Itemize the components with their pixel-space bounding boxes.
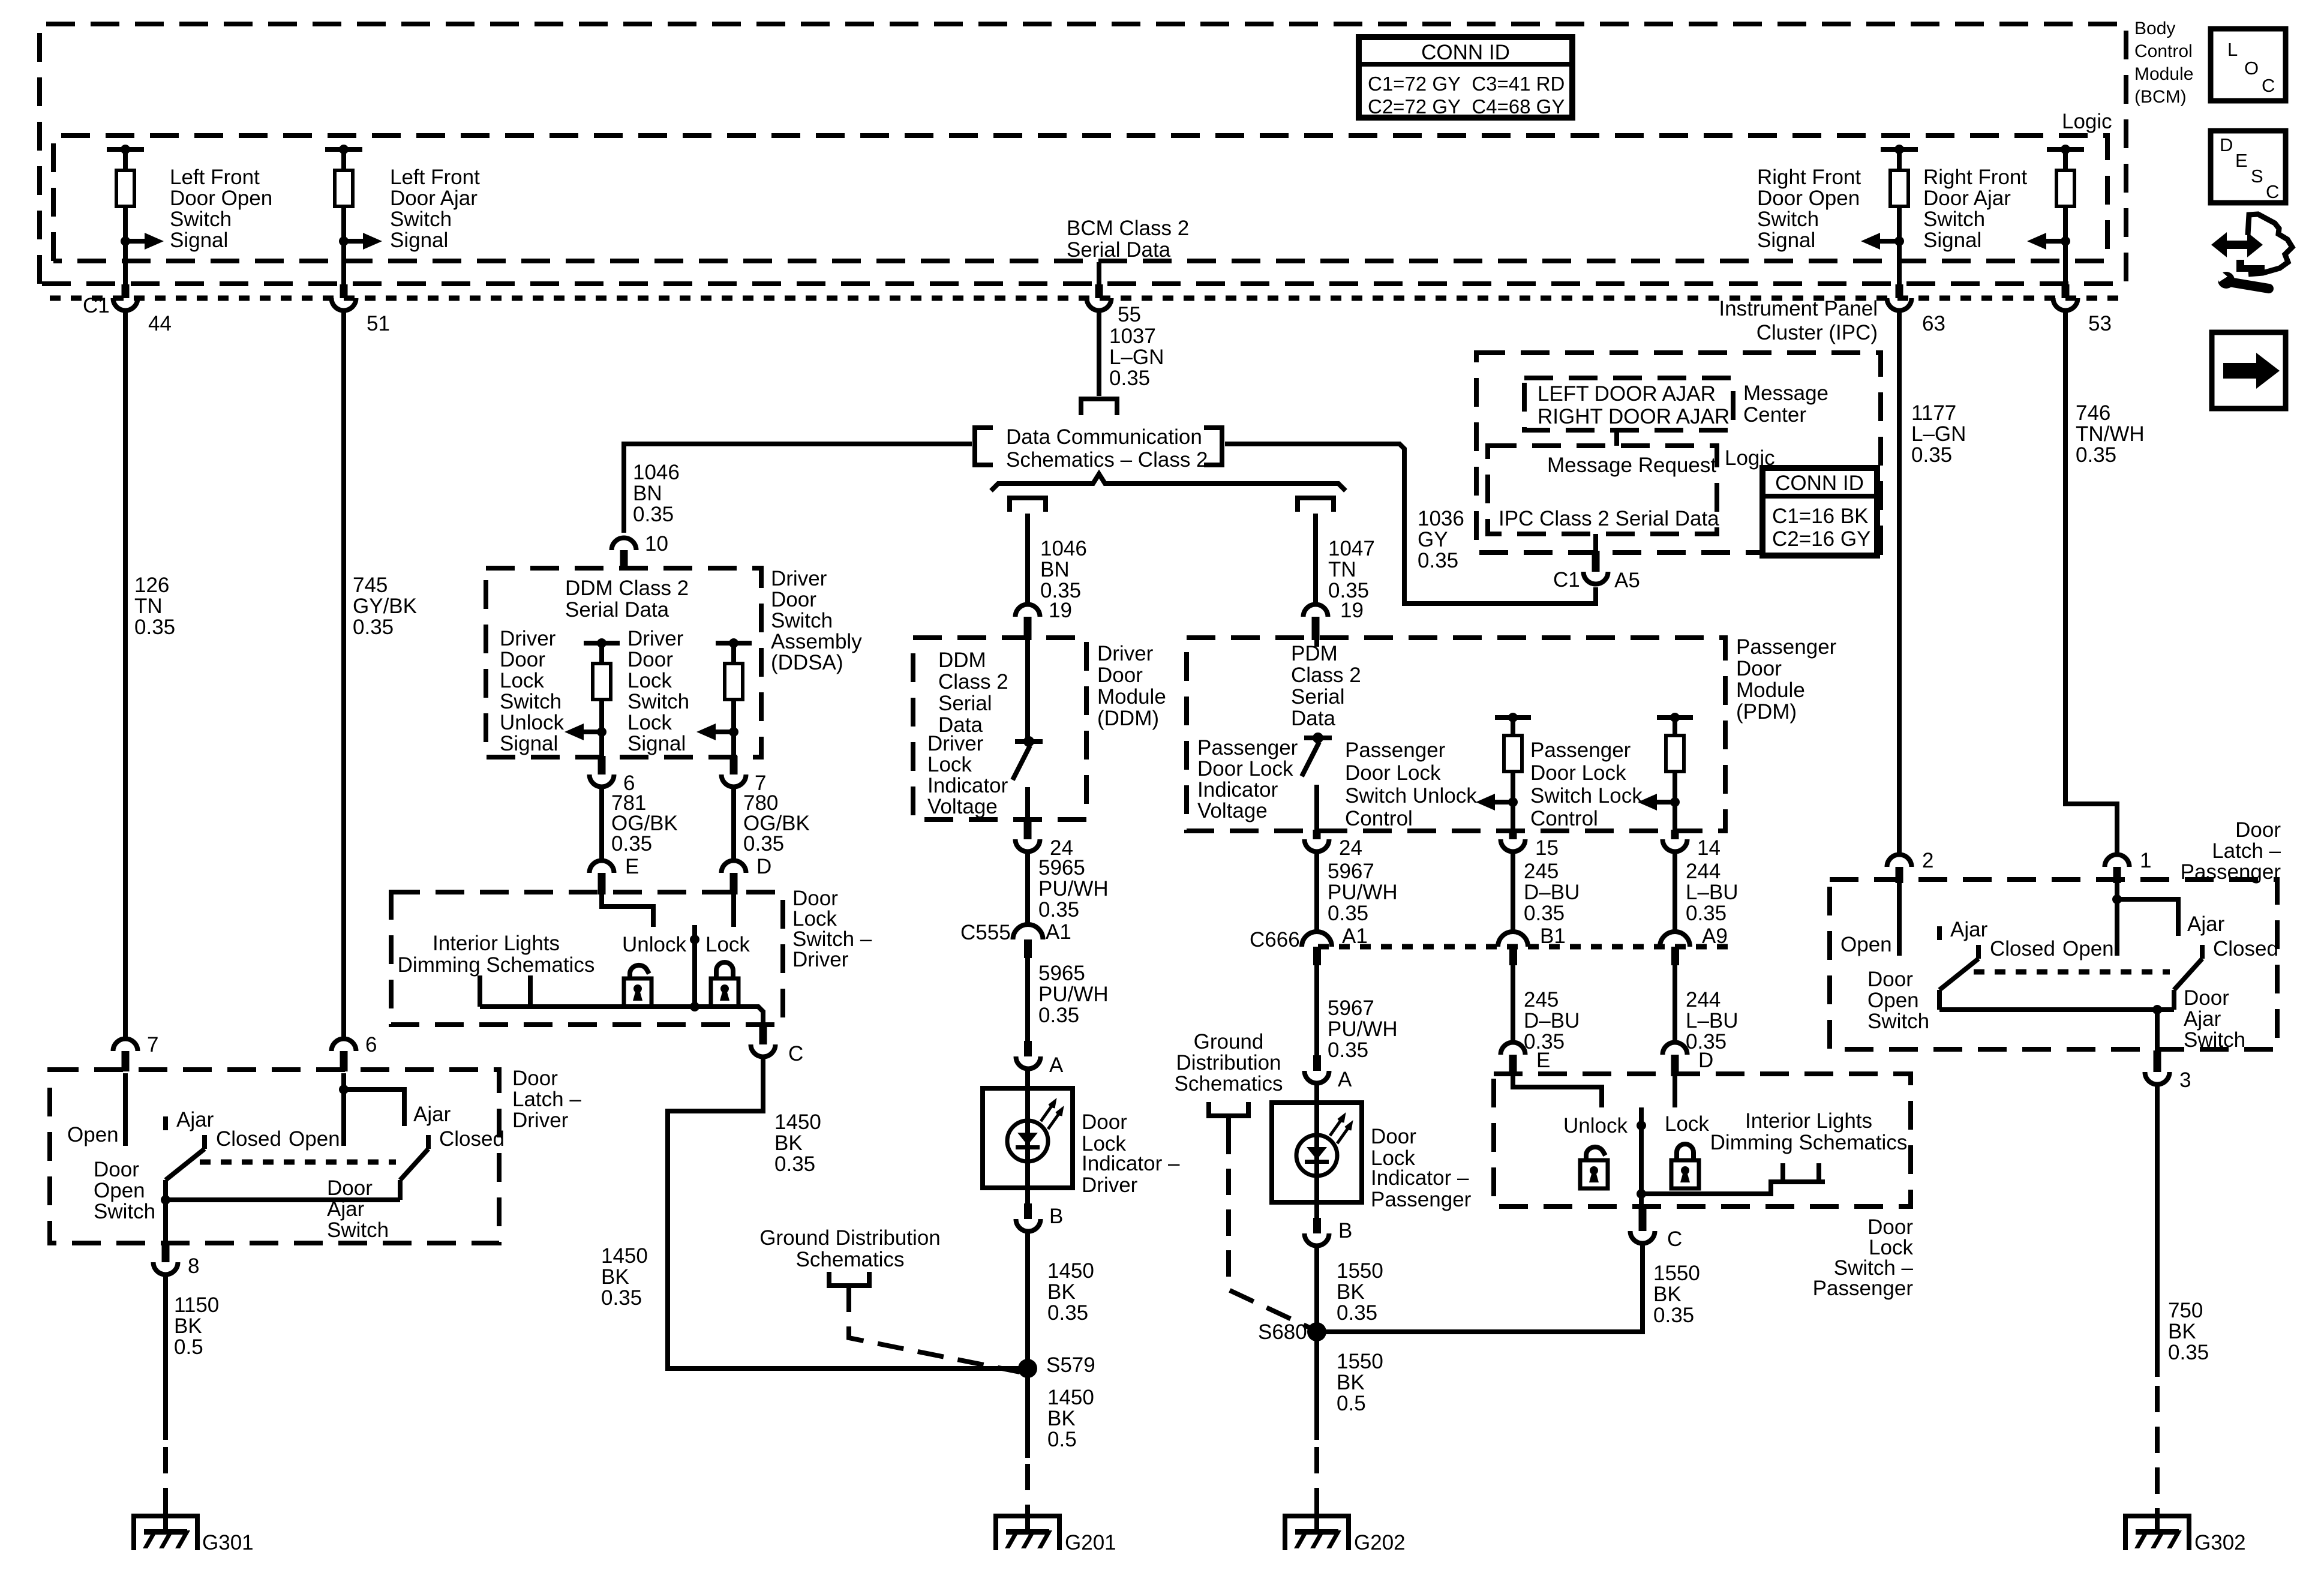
label: Ground Distribution Schematics (passenger side): [1175, 1030, 1283, 1095]
inline connector C666 pin A9: [1660, 924, 1728, 965]
svg-text:Message: Message: [1743, 382, 1828, 405]
svg-text:19: 19: [1049, 599, 1072, 622]
svg-text:L–GN: L–GN: [1911, 422, 1966, 446]
wire 1036 from data comm label right side: [1225, 444, 1596, 604]
svg-text:Instrument Panel: Instrument Panel: [1719, 297, 1878, 320]
label: 5965 PU/WH 0.35 (above C555): [1038, 856, 1109, 921]
wire 746 TN/WH from BCM pin 53 to door latch passenger pin 1: [2065, 310, 2117, 854]
label: 55 1037 L-GN 0.35: [1109, 303, 1164, 390]
label: 746 TN/WH 0.35: [2076, 401, 2145, 467]
connector pin B on door lock indicator passenger: [1305, 1202, 1353, 1246]
svg-text:BK: BK: [174, 1314, 202, 1338]
svg-text:S680: S680: [1258, 1320, 1307, 1344]
svg-text:DDM: DDM: [938, 649, 986, 672]
label: Passenger Door Lock Switch Lock Control: [1530, 739, 1643, 830]
svg-text:BCM Class 2: BCM Class 2: [1067, 217, 1189, 240]
svg-text:(PDM): (PDM): [1736, 700, 1797, 724]
connector pin 6 on door latch driver: [332, 1033, 377, 1071]
resistor R1 (left front door open switch): [107, 145, 164, 287]
module box: IPC Logic inner dashed outline: [1488, 446, 1717, 534]
svg-text:Open: Open: [289, 1127, 340, 1151]
svg-text:Serial Data: Serial Data: [565, 598, 669, 622]
svg-text:E: E: [1536, 1049, 1550, 1072]
display box: LEFT DOOR AJAR / RIGHT DOOR AJAR: [1524, 378, 1733, 430]
svg-text:Switch: Switch: [1867, 1010, 1929, 1033]
label: 5967 PU/WH 0.35 (above C666): [1328, 860, 1398, 925]
label: Ground Distribution Schematics (driver side): [759, 1226, 941, 1271]
svg-text:Unlock: Unlock: [1563, 1114, 1628, 1137]
svg-text:Door: Door: [94, 1158, 139, 1181]
module box: Driver Door Switch Assembly (DDSA) dashed outline: [486, 568, 761, 757]
resistor driver door lock switch unlock (DDSA): [565, 638, 620, 758]
label: Driver Door Lock Switch Unlock Signal: [500, 627, 564, 755]
svg-text:Door: Door: [627, 648, 673, 671]
switch common post (passenger door lock switch): [1637, 1107, 1646, 1199]
wire from data comm label to DDM serial branch (left): [624, 444, 972, 533]
svg-text:Passenger: Passenger: [1345, 739, 1446, 762]
svg-text:Switch: Switch: [627, 690, 689, 713]
svg-text:Passenger: Passenger: [1813, 1277, 1914, 1300]
inline connector C555 pin A1: [960, 920, 1071, 958]
svg-text:E: E: [2235, 150, 2248, 171]
svg-text:BK: BK: [1337, 1371, 1365, 1394]
svg-text:7: 7: [147, 1033, 158, 1056]
svg-text:Door Ajar: Door Ajar: [390, 187, 478, 210]
svg-text:1450: 1450: [1047, 1259, 1094, 1283]
svg-text:O: O: [2244, 58, 2259, 79]
wire to G201: [1025, 1378, 1030, 1514]
svg-text:IPC Class 2 Serial Data: IPC Class 2 Serial Data: [1499, 507, 1719, 530]
module box: Passenger Door Module (PDM) dashed outline: [1187, 638, 1725, 831]
svg-text:Serial: Serial: [938, 692, 992, 715]
ground G301: [131, 1514, 254, 1554]
label: Passenger Door Lock Indicator Voltage: [1197, 736, 1298, 822]
module box: Body Control Module (BCM) outer dashed outline: [40, 24, 2126, 284]
svg-text:BN: BN: [1040, 558, 1070, 581]
label: Door Open Switch (driver): [94, 1158, 155, 1223]
svg-text:DDM Class 2: DDM Class 2: [565, 577, 689, 600]
module box: Door Latch - Driver dashed outline: [50, 1070, 499, 1243]
svg-text:Ajar: Ajar: [1950, 918, 1988, 941]
connector pin D on door lock switch passenger: [1663, 1043, 1714, 1077]
resistor R3 (right front door open switch): [1861, 145, 1918, 287]
svg-text:Ground: Ground: [1194, 1030, 1264, 1053]
svg-text:63: 63: [1922, 312, 1945, 335]
svg-text:Door: Door: [327, 1176, 373, 1200]
svg-text:Serial: Serial: [1291, 685, 1344, 709]
label: 1550 BK 0.5 (below S680): [1337, 1350, 1383, 1415]
svg-text:Signal: Signal: [170, 229, 228, 252]
wire from IPC class 2 serial data to connector A5: [1593, 534, 1598, 553]
svg-text:CONN ID: CONN ID: [1421, 41, 1510, 64]
svg-text:Unlock: Unlock: [622, 933, 686, 956]
svg-text:Control: Control: [2134, 41, 2193, 61]
svg-text:8: 8: [188, 1254, 199, 1278]
svg-text:5967: 5967: [1328, 860, 1374, 883]
svg-text:Door: Door: [500, 648, 545, 671]
svg-text:Cluster (IPC): Cluster (IPC): [1756, 321, 1878, 344]
wire 5967 PU/WH from PDM 24 to C666: [1314, 852, 1319, 933]
svg-text:1550: 1550: [1653, 1262, 1700, 1285]
svg-text:D–BU: D–BU: [1524, 1009, 1580, 1032]
svg-text:C: C: [788, 1042, 803, 1065]
svg-text:Center: Center: [1743, 403, 1806, 427]
connector C1 pin A5 on IPC: [1553, 551, 1640, 592]
svg-text:L: L: [2227, 39, 2238, 60]
svg-text:Open: Open: [1840, 933, 1892, 956]
label: 1450 BK 0.35 (below C driver): [774, 1110, 821, 1176]
svg-text:Class 2: Class 2: [938, 670, 1008, 694]
svg-text:C1: C1: [83, 294, 110, 317]
svg-text:B: B: [1338, 1219, 1352, 1242]
svg-text:746: 746: [2076, 401, 2110, 425]
svg-text:Passenger: Passenger: [1736, 635, 1837, 659]
svg-text:0.35: 0.35: [1328, 902, 1368, 925]
connector pin 55 on BCM (BCM Class 2 Serial Data): [1087, 262, 1112, 311]
svg-text:C: C: [2266, 181, 2279, 202]
wire 745 GY/BK from BCM pin 51 down to door latch driver pin 6: [341, 310, 346, 1038]
svg-text:L–BU: L–BU: [1686, 1009, 1739, 1032]
connector pin D on door lock switch driver: [722, 855, 772, 894]
svg-text:Class 2: Class 2: [1291, 664, 1361, 687]
resistor driver door lock switch lock (DDSA): [696, 638, 752, 758]
svg-text:Control: Control: [1345, 807, 1413, 830]
connector C666 face dotted line: [1318, 944, 1728, 950]
svg-text:PU/WH: PU/WH: [1038, 877, 1109, 900]
icon: forward arrow box: [2212, 332, 2286, 409]
svg-text:Driver: Driver: [771, 567, 827, 590]
connector pin 6 on DDSA: [590, 756, 635, 795]
label: Door Lock Switch - Driver: [792, 887, 872, 971]
svg-text:Serial Data: Serial Data: [1067, 238, 1171, 262]
dashed wire from ground distribution to S680: [1226, 1116, 1231, 1128]
label: Door Latch - Passenger: [2181, 818, 2281, 884]
svg-text:Passenger: Passenger: [1371, 1188, 1472, 1211]
connector pin 63 on BCM: [1887, 284, 1945, 335]
svg-text:Dimming Schematics: Dimming Schematics: [398, 953, 595, 977]
label: PDM Class 2 Serial Data (inside PDM): [1291, 642, 1361, 730]
switch: door ajar switch (driver latch): [166, 1073, 428, 1200]
svg-text:C555: C555: [960, 921, 1011, 944]
svg-text:0.35: 0.35: [1418, 549, 1458, 572]
switch: door open switch (passenger latch): [1899, 883, 1978, 1010]
svg-text:PDM: PDM: [1291, 642, 1338, 665]
svg-text:24: 24: [1339, 836, 1362, 860]
mechanical link dotted line between driver latch switches: [200, 1160, 396, 1165]
svg-text:D: D: [2220, 134, 2233, 155]
svg-text:Door Lock: Door Lock: [1345, 761, 1441, 785]
label: 245 D-BU 0.35 (above B1): [1524, 860, 1580, 925]
BCM connector face dotted line: [50, 296, 2126, 301]
label: 1450 BK 0.5 (below S579): [1047, 1386, 1094, 1451]
svg-text:0.35: 0.35: [2168, 1341, 2209, 1364]
svg-text:Driver: Driver: [627, 627, 684, 650]
svg-text:D–BU: D–BU: [1524, 881, 1580, 904]
label: Message Center: [1743, 382, 1828, 427]
svg-text:244: 244: [1686, 988, 1721, 1011]
svg-text:Signal: Signal: [627, 732, 686, 755]
off-page bracket below wire 1037: [1081, 399, 1117, 415]
svg-text:G302: G302: [2194, 1531, 2246, 1554]
resistor R2 (left front door ajar switch): [325, 145, 382, 287]
svg-text:1: 1: [2140, 849, 2151, 872]
svg-text:55: 55: [1118, 303, 1141, 326]
svg-text:Unlock: Unlock: [500, 711, 564, 734]
wire lock contact from D (passenger): [1673, 1076, 1677, 1107]
svg-text:5965: 5965: [1038, 962, 1085, 985]
label: 750 BK 0.35: [2168, 1299, 2209, 1364]
wire 245 D-BU from B1 to E: [1511, 965, 1515, 1041]
label: 1550 BK 0.35 (below C passenger): [1653, 1262, 1700, 1327]
svg-text:Latch –: Latch –: [2212, 839, 2281, 863]
svg-text:Ajar: Ajar: [176, 1108, 214, 1131]
svg-text:Interior Lights: Interior Lights: [1745, 1109, 1872, 1133]
label: 245 D-BU 0.35 (below B1): [1524, 988, 1580, 1053]
svg-text:Schematics: Schematics: [1175, 1072, 1283, 1095]
wire 1047 TN branch down to PDM pin 19: [1313, 514, 1318, 604]
svg-text:Door: Door: [1867, 968, 1913, 991]
indicator lamp: Door Lock Indicator - Passenger (LED): [1272, 1103, 1362, 1202]
svg-text:0.35: 0.35: [633, 503, 674, 526]
svg-text:Driver: Driver: [500, 627, 556, 650]
bus brace line fanning out serial data: [991, 474, 1346, 491]
svg-text:1046: 1046: [1040, 537, 1087, 560]
label: 126 TN 0.35: [134, 574, 175, 639]
svg-text:BK: BK: [2168, 1320, 2196, 1343]
indicator lamp: Door Lock Indicator - Driver (LED): [983, 1088, 1073, 1188]
svg-text:0.35: 0.35: [611, 832, 652, 855]
svg-text:Closed: Closed: [439, 1127, 505, 1151]
svg-text:Driver: Driver: [512, 1109, 569, 1132]
svg-text:A9: A9: [1702, 924, 1728, 948]
label: Door Lock Indicator - Passenger: [1371, 1125, 1472, 1211]
splice S680: [1258, 1320, 1326, 1344]
svg-text:0.35: 0.35: [601, 1286, 642, 1310]
svg-text:6: 6: [365, 1033, 377, 1056]
label: Interior Lights Dimming Schematics (driver): [398, 932, 595, 977]
dashed wire from ground distribution to S579: [849, 1286, 1020, 1372]
svg-text:Closed: Closed: [2213, 937, 2278, 960]
svg-text:B: B: [1049, 1205, 1063, 1228]
svg-text:Indicator: Indicator: [1197, 778, 1278, 801]
svg-text:0.5: 0.5: [1047, 1428, 1077, 1451]
svg-text:Module: Module: [2134, 64, 2193, 84]
svg-text:0.35: 0.35: [134, 616, 175, 639]
label: 780 OG/BK 0.35: [743, 791, 810, 855]
svg-text:Driver: Driver: [1097, 642, 1154, 665]
svg-text:Door Open: Door Open: [1757, 187, 1860, 210]
svg-text:0.35: 0.35: [1047, 1301, 1088, 1325]
wire from A into indicator: [1025, 1070, 1030, 1089]
connector pin E on door lock switch driver: [590, 855, 639, 894]
svg-text:G201: G201: [1065, 1531, 1116, 1554]
svg-text:(DDSA): (DDSA): [771, 651, 843, 674]
connector pin 44 on BCM: [113, 284, 172, 335]
svg-text:GY/BK: GY/BK: [353, 595, 417, 618]
wire 245 D-BU from PDM 15 to B1: [1511, 852, 1515, 933]
wire 781 OG/BK from DDSA 6 to E: [599, 788, 604, 860]
label: Passenger Door Module (PDM): [1736, 635, 1837, 724]
svg-text:Driver: Driver: [792, 948, 849, 971]
svg-text:A: A: [1049, 1053, 1064, 1077]
label: DDM Class 2 Serial Data (inside DDM): [938, 649, 1008, 737]
svg-text:Open: Open: [1867, 989, 1919, 1012]
svg-text:Door: Door: [1082, 1110, 1127, 1134]
svg-text:0.35: 0.35: [1109, 367, 1150, 390]
svg-text:10: 10: [645, 532, 668, 556]
svg-text:Door Open: Door Open: [170, 187, 272, 210]
connector pin A on door lock indicator driver: [1016, 1041, 1064, 1077]
svg-text:Door: Door: [1736, 657, 1782, 680]
switch: passenger lock indicator voltage switch inside PDM: [1302, 640, 1332, 832]
svg-text:Door: Door: [1371, 1125, 1416, 1148]
connector pin 3 on door latch passenger: [2145, 1050, 2191, 1092]
svg-text:245: 245: [1524, 860, 1559, 883]
svg-text:Ajar: Ajar: [2187, 912, 2225, 936]
connector pin A on door lock indicator passenger: [1305, 1055, 1353, 1091]
svg-text:Signal: Signal: [1923, 229, 1981, 252]
svg-text:244: 244: [1686, 860, 1721, 883]
wire to G202: [1314, 1341, 1319, 1514]
connector pin 15 on PDM: [1501, 830, 1559, 860]
label: signal text R2 (left front door ajar switch): [390, 166, 480, 252]
connector pin 51 on BCM: [332, 284, 390, 335]
connector pin 14 on PDM: [1663, 830, 1721, 860]
svg-text:Door: Door: [2184, 986, 2229, 1010]
label: 1036 GY 0.35: [1418, 507, 1464, 572]
svg-text:PU/WH: PU/WH: [1328, 881, 1398, 904]
svg-text:Switch: Switch: [1923, 208, 1985, 231]
svg-text:Voltage: Voltage: [927, 795, 998, 818]
label: Driver Door Module (DDM): [1097, 642, 1166, 730]
wire 1150 BK to G301: [163, 1275, 168, 1440]
label: 1450 BK 0.35 (left riser): [601, 1244, 648, 1310]
module box: Driver Door Module (DDM) dashed outline: [913, 638, 1086, 819]
label: 745 GY/BK 0.35: [353, 574, 417, 639]
svg-text:Ajar: Ajar: [413, 1103, 451, 1126]
svg-text:Passenger: Passenger: [1530, 739, 1631, 762]
svg-text:Switch Unlock: Switch Unlock: [1345, 784, 1477, 807]
svg-text:Signal: Signal: [1757, 229, 1815, 252]
wire 244 L-BU from A9 to D: [1673, 965, 1677, 1041]
module box: Door Latch - Passenger dashed outline: [1830, 879, 2277, 1049]
padlock icon unlock (passenger): [1580, 1147, 1608, 1188]
svg-text:E: E: [625, 855, 639, 878]
label: Door Ajar Switch (driver): [327, 1176, 389, 1242]
svg-text:51: 51: [367, 312, 390, 335]
module box: Door Lock Switch - Passenger dashed outline: [1494, 1074, 1911, 1206]
svg-text:Schematics – Class 2: Schematics – Class 2: [1006, 448, 1208, 472]
svg-text:Right Front: Right Front: [1757, 166, 1861, 189]
connector pin 8 on door latch driver: [154, 1244, 200, 1278]
label: 1150 BK 0.5: [174, 1293, 219, 1359]
label: Driver Lock Indicator Voltage: [927, 732, 1008, 818]
svg-text:Module: Module: [1736, 679, 1805, 702]
svg-text:RIGHT DOOR AJAR: RIGHT DOOR AJAR: [1538, 405, 1730, 428]
svg-text:245: 245: [1524, 988, 1559, 1011]
svg-text:0.35: 0.35: [1653, 1304, 1694, 1327]
connector pin E on door lock switch passenger: [1501, 1043, 1551, 1077]
svg-text:Dimming Schematics: Dimming Schematics: [1710, 1131, 1908, 1154]
svg-text:S: S: [2251, 166, 2263, 187]
svg-text:PU/WH: PU/WH: [1038, 983, 1109, 1006]
svg-text:Open: Open: [67, 1123, 119, 1146]
wire lock contact from D (driver): [731, 894, 736, 927]
svg-text:0.35: 0.35: [1328, 1038, 1368, 1062]
wire from passenger common down to C: [1639, 1194, 1644, 1208]
label: Door Lock Indicator - Driver: [1082, 1110, 1180, 1197]
svg-text:1150: 1150: [174, 1293, 219, 1317]
svg-text:LEFT DOOR AJAR: LEFT DOOR AJAR: [1538, 382, 1716, 406]
connector pin 19 on DDM: [1016, 599, 1072, 640]
svg-text:Control: Control: [1530, 807, 1598, 830]
svg-text:19: 19: [1340, 599, 1364, 622]
svg-text:Lock: Lock: [627, 669, 672, 692]
padlock icon unlock (driver): [624, 965, 651, 1007]
svg-text:C1=16 BK: C1=16 BK: [1772, 505, 1869, 528]
padlock icon lock (passenger): [1671, 1144, 1699, 1188]
svg-text:44: 44: [148, 312, 172, 335]
svg-text:Door: Door: [2235, 818, 2281, 842]
inline connector C666 pin B1: [1498, 924, 1566, 965]
svg-text:Door Ajar: Door Ajar: [1923, 187, 2011, 210]
connector pin 53 on BCM: [2053, 284, 2112, 335]
svg-text:G301: G301: [202, 1531, 254, 1554]
svg-text:15: 15: [1535, 836, 1559, 860]
svg-text:0.35: 0.35: [1337, 1301, 1377, 1325]
svg-text:Indicator: Indicator: [927, 774, 1008, 797]
wire 1177 L-GN from BCM pin 63 to door latch passenger pin 2: [1897, 310, 1902, 854]
svg-text:Switch: Switch: [94, 1200, 155, 1223]
svg-text:C2=16 GY: C2=16 GY: [1772, 527, 1870, 551]
svg-text:0.35: 0.35: [2076, 443, 2116, 467]
svg-text:0.35: 0.35: [1038, 1004, 1079, 1027]
svg-text:Switch: Switch: [500, 690, 562, 713]
module box: Door Lock Switch - Driver dashed outline: [391, 892, 783, 1025]
connector pin 2 on door latch passenger: [1887, 849, 1934, 883]
svg-text:53: 53: [2088, 312, 2112, 335]
label: DDM Class 2 Serial Data (inside DDSA): [565, 577, 689, 622]
svg-text:Signal: Signal: [500, 732, 558, 755]
svg-text:Ajar: Ajar: [2184, 1007, 2221, 1031]
wire unlock contact jog from E (passenger): [1513, 1076, 1602, 1107]
svg-text:Left Front: Left Front: [390, 166, 480, 189]
svg-text:A5: A5: [1614, 569, 1640, 592]
svg-text:750: 750: [2168, 1299, 2203, 1322]
svg-text:0.35: 0.35: [1686, 902, 1727, 925]
wire from message center to message request: [1614, 430, 1619, 446]
label: signal text R4 (right front door ajar switch): [1923, 166, 2027, 252]
svg-text:Message Request: Message Request: [1547, 454, 1716, 477]
wire from passenger common to dimming bracket: [1641, 1182, 1825, 1194]
svg-text:Closed: Closed: [216, 1127, 281, 1151]
label: 5967 PU/WH 0.35 (below C666): [1328, 996, 1398, 1062]
wire 1550 BK from B to S680: [1314, 1247, 1319, 1440]
wire 1450 BK from B to S579: [1025, 1232, 1030, 1440]
padlock icon lock (driver): [711, 962, 738, 1007]
resistor R4 (right front door ajar switch): [2027, 145, 2084, 287]
resistor passenger door lock switch unlock control (PDM): [1476, 713, 1531, 832]
svg-text:Driver: Driver: [927, 732, 984, 755]
svg-text:C: C: [1667, 1227, 1682, 1251]
reference bracket to interior lights dimming (passenger): [1783, 1163, 1819, 1182]
svg-text:L–GN: L–GN: [1109, 346, 1164, 369]
svg-text:BK: BK: [1047, 1280, 1076, 1304]
svg-text:B1: B1: [1540, 924, 1566, 948]
label: signal text R3 (right front door open switch): [1757, 166, 1861, 252]
svg-text:Latch –: Latch –: [512, 1088, 581, 1111]
svg-text:3: 3: [2179, 1068, 2191, 1092]
